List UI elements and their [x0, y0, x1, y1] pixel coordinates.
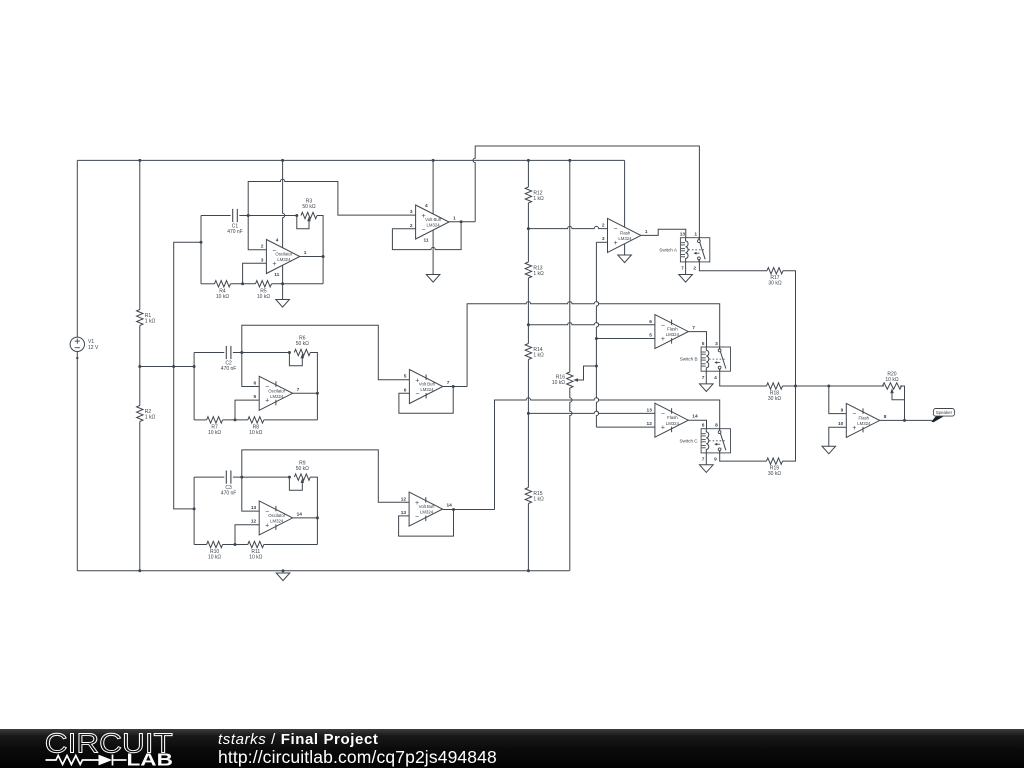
node flash4 output/feedback — [903, 419, 906, 422]
svg-text:3: 3 — [715, 341, 718, 347]
wire R10 to R11 — [223, 544, 248, 546]
svg-text:Switch B: Switch B — [680, 357, 698, 362]
svg-text:13: 13 — [251, 505, 257, 511]
svg-text:12: 12 — [401, 496, 407, 502]
resistor R8 — [248, 417, 264, 423]
svg-text:12: 12 — [251, 519, 257, 525]
capacitor C1 — [232, 209, 234, 222]
svg-text:7: 7 — [692, 325, 695, 331]
svg-text:Oscilator: Oscilator — [275, 252, 293, 257]
ground on bottom rail — [282, 571, 284, 573]
svg-text:10 kΩ: 10 kΩ — [885, 377, 898, 383]
svg-text:Speaker: Speaker — [936, 410, 953, 415]
svg-text:12 V: 12 V — [88, 345, 99, 351]
svg-text:5: 5 — [649, 332, 652, 338]
svg-text:5: 5 — [404, 374, 407, 380]
node osc3 inverting net — [240, 476, 243, 479]
resistor R6 (pot body) — [294, 349, 310, 355]
wire flash2 pin6 line — [528, 323, 655, 325]
node 12V/osc1 power — [281, 159, 284, 162]
resistor R16 (pot body) — [567, 372, 573, 388]
wire flash1 out to switch A coil — [641, 229, 686, 237]
svg-text:10 kΩ: 10 kΩ — [216, 294, 229, 300]
resistor R14 — [525, 344, 531, 360]
node osc1 + feedback — [241, 282, 244, 285]
resistor R10 — [207, 541, 223, 547]
potentiometer R20 wiper — [890, 388, 894, 393]
node gnd symbol tap — [282, 569, 285, 572]
svg-text:3: 3 — [602, 236, 605, 242]
svg-text:470 nF: 470 nF — [221, 366, 237, 372]
node osc2 + feedback — [234, 418, 237, 421]
svg-text:Flash: Flash — [667, 327, 678, 332]
node osc1 inverting net — [247, 214, 250, 217]
node osc2 output — [316, 392, 319, 395]
svg-text:Volt Buff: Volt Buff — [425, 217, 442, 222]
svg-text:50 kΩ: 50 kΩ — [296, 466, 309, 472]
svg-text:2: 2 — [693, 266, 696, 272]
wire osc1 pin2 drop — [248, 216, 266, 250]
node R6 left terminal — [288, 351, 291, 354]
svg-text:10 kΩ: 10 kΩ — [208, 555, 221, 561]
svg-text:LM324: LM324 — [666, 332, 680, 337]
wire divider drop to osc3 — [174, 367, 194, 509]
wire 12V top rail — [77, 159, 624, 161]
resistor R3 (pot body) — [301, 212, 317, 218]
wire VB1 output — [449, 221, 475, 223]
wire osc3 pin13 drop — [242, 477, 259, 511]
op-amp U2D Flash LM324 — [655, 315, 688, 349]
potentiometer R9 wiper — [289, 477, 302, 490]
svg-text:+: + — [661, 336, 665, 343]
node 12V/VB1 power — [432, 159, 435, 162]
node divider branch — [172, 365, 175, 368]
wire rail B bottom — [570, 388, 572, 571]
svg-text:14: 14 — [297, 511, 303, 517]
svg-text:Flash: Flash — [667, 415, 678, 420]
svg-text:1 kΩ: 1 kΩ — [145, 415, 156, 421]
voltage source V1 — [70, 337, 84, 351]
svg-text:30 kΩ: 30 kΩ — [768, 396, 781, 402]
svg-text:3: 3 — [261, 257, 264, 263]
wire osc3 left rail — [193, 477, 195, 544]
node rail C / flash2 + — [595, 337, 598, 340]
ground below VB1 — [426, 275, 440, 283]
svg-text:LM324: LM324 — [857, 421, 871, 426]
svg-text:2: 2 — [602, 223, 605, 229]
svg-text:1 kΩ: 1 kΩ — [533, 196, 544, 202]
wire osc1 node riser to VB1 — [248, 179, 415, 215]
resistor R5 — [256, 281, 272, 287]
svg-text:Flash: Flash — [859, 415, 870, 420]
wire VB2 feedback — [399, 387, 453, 414]
node osc3 + feedback — [234, 543, 237, 546]
svg-text:1: 1 — [453, 216, 456, 222]
svg-text:10 kΩ: 10 kΩ — [552, 380, 565, 386]
svg-text:LM324: LM324 — [666, 421, 680, 426]
wire osc2 pin5 riser — [235, 400, 259, 420]
svg-text:LM324: LM324 — [270, 394, 284, 399]
svg-text:4: 4 — [276, 238, 279, 244]
wire R6 to osc2 right rail — [310, 353, 317, 420]
resistor R17 — [767, 268, 783, 274]
svg-text:LM324: LM324 — [420, 387, 434, 392]
op-amp U1C Oscilator LM324 — [259, 376, 292, 410]
wire rail C — [596, 242, 598, 427]
wire R20 top run — [829, 385, 884, 387]
wire flash4 plus to ground — [829, 427, 847, 446]
op-amp U2A Oscilator LM324 — [259, 501, 292, 535]
svg-text:1 kΩ: 1 kΩ — [533, 271, 544, 277]
svg-text:13: 13 — [647, 407, 653, 413]
wire osc1 output to right rail — [300, 256, 323, 258]
svg-text:6: 6 — [404, 387, 407, 393]
node R9 left terminal — [288, 476, 291, 479]
svg-text:4: 4 — [714, 375, 717, 381]
node 12V/R1 — [138, 159, 141, 162]
svg-text:30 kΩ: 30 kΩ — [768, 471, 781, 477]
svg-text:10 kΩ: 10 kΩ — [208, 430, 221, 436]
svg-text:11: 11 — [423, 238, 428, 244]
op-amp U2B Volt Buff LM324 — [409, 492, 442, 526]
node gnd/R2 — [138, 569, 141, 572]
svg-text:5: 5 — [702, 341, 705, 347]
capacitor C3 — [225, 471, 227, 484]
svg-text:470 nF: 470 nF — [221, 491, 237, 497]
svg-text:6: 6 — [702, 423, 705, 429]
svg-text:LM324: LM324 — [427, 223, 441, 228]
svg-text:12: 12 — [647, 421, 653, 427]
svg-text:2: 2 — [410, 223, 413, 229]
node osc2 inverting net — [240, 351, 243, 354]
node osc1 output — [322, 255, 325, 258]
svg-text:7: 7 — [297, 387, 300, 393]
node mixer input — [827, 385, 830, 388]
node rail A / flash1 threshold — [527, 227, 530, 230]
wire osc2 left rail — [193, 353, 195, 420]
node 12V/rail A — [527, 159, 530, 162]
resistor R7 — [207, 417, 223, 423]
svg-text:470 nF: 470 nF — [227, 229, 243, 235]
wire divider node to R2 — [139, 367, 141, 406]
CircuitLab logo — [0, 729, 200, 768]
svg-text:10 kΩ: 10 kΩ — [257, 294, 270, 300]
wire osc1 pin3 riser — [243, 263, 267, 284]
wire osc2 node riser + bus to VB2 — [242, 325, 410, 379]
potentiometer R6 wiper — [289, 353, 302, 366]
ground below switch B coil — [705, 371, 707, 384]
wire VB2 output — [443, 386, 467, 388]
svg-text:−: − — [613, 226, 617, 233]
wire R8 to right rail — [264, 419, 318, 421]
node mix rail / R18 — [794, 385, 797, 388]
wire R5 to right rail — [272, 283, 324, 285]
wire rail A seg4 — [527, 360, 529, 488]
op-amp U3A Flash LM324 — [655, 403, 688, 437]
wire C2 to node — [233, 352, 290, 354]
svg-text:4: 4 — [425, 203, 428, 209]
svg-text:5: 5 — [254, 394, 257, 400]
op-amp U1D Volt Buff LM324 — [409, 370, 442, 404]
wire osc2 output to right rail — [293, 392, 318, 394]
svg-text:8: 8 — [715, 423, 718, 429]
node osc3 output — [316, 516, 319, 519]
svg-text:13: 13 — [401, 510, 407, 516]
svg-text:+: + — [265, 398, 269, 405]
op-amp U3B Flash LM324 — [846, 403, 879, 437]
wire R19 to mix rail — [783, 386, 796, 461]
wire 12V to R1 — [139, 160, 141, 309]
wire R3 to osc1 right rail — [317, 216, 323, 284]
wire rail A seg5 — [527, 504, 529, 571]
wire R1 to divider node — [139, 326, 141, 367]
wire osc3 node riser + bus to VB3 — [242, 450, 409, 502]
wire flash2 out to switch B coil — [688, 332, 706, 347]
wire osc1 bottom row left — [201, 283, 215, 285]
svg-text:6: 6 — [254, 381, 257, 387]
resistor R2 — [137, 406, 143, 422]
wire flash2 pin5 line — [596, 338, 655, 340]
svg-text:−: − — [661, 411, 665, 418]
resistor R18 — [767, 383, 783, 389]
ground below switch C coil — [705, 453, 707, 465]
resistor R12 — [525, 187, 531, 203]
wire flash1 pin3 line — [596, 241, 607, 243]
svg-text:10 kΩ: 10 kΩ — [249, 555, 262, 561]
resistor R13 — [525, 262, 531, 278]
resistor R19 — [767, 458, 783, 464]
wire R7 to R8 — [223, 419, 248, 421]
wire switch C out — [720, 451, 767, 462]
svg-text:7: 7 — [702, 457, 705, 463]
speaker flag — [931, 416, 944, 422]
ground below flash1 — [618, 255, 632, 263]
svg-text:+: + — [661, 425, 665, 432]
node rail A / flash2 threshold — [527, 323, 530, 326]
wire osc2 bottom row left — [194, 419, 207, 421]
wire flash4 output — [880, 419, 932, 421]
node rail C / R16 wiper — [595, 365, 598, 368]
svg-text:7: 7 — [447, 380, 450, 386]
wire below V1 to ground rail — [76, 352, 78, 571]
node divider mid — [138, 365, 141, 368]
node R3 left terminal — [295, 214, 298, 217]
svg-text:3: 3 — [410, 209, 413, 215]
wire osc3 pin12 riser — [235, 525, 259, 545]
wire osc1 power pin4 — [283, 160, 285, 247]
resistor R11 — [248, 541, 264, 547]
svg-text:LAB: LAB — [127, 750, 173, 768]
node V1 negative terminal — [76, 357, 78, 359]
op-amp U1A Oscilator LM324 — [266, 240, 299, 274]
node VB1 output/feedback — [460, 220, 463, 223]
wire mix to flash4 minus — [829, 386, 847, 414]
wire divider to osc2 rail — [140, 366, 194, 368]
capacitor C2 — [225, 346, 227, 359]
svg-text:LM324: LM324 — [420, 510, 434, 515]
node rail A / flash3 threshold — [527, 412, 530, 415]
svg-text:−: − — [422, 226, 426, 233]
wire VB2 output riser + bus to switch B — [467, 302, 720, 387]
svg-text:1 kΩ: 1 kΩ — [533, 353, 544, 359]
wire rail A seg2 — [527, 203, 529, 262]
svg-text:13: 13 — [680, 232, 686, 238]
wire osc3 bottom row left — [194, 544, 207, 546]
svg-text:1 kΩ: 1 kΩ — [145, 319, 156, 325]
wire osc1 top (C1/R3 row) — [201, 215, 231, 217]
svg-text:LM324: LM324 — [277, 257, 291, 262]
wire switch A out — [699, 260, 767, 271]
op-amp U1B Volt Buff LM324 — [416, 205, 449, 239]
svg-text:10 kΩ: 10 kΩ — [249, 430, 262, 436]
wire R11 to right rail — [264, 544, 318, 546]
svg-text:14: 14 — [692, 414, 698, 420]
wire left supply rail — [76, 160, 78, 337]
node gnd/rail A — [527, 569, 530, 572]
ground below flash4 — [822, 446, 836, 454]
svg-text:9: 9 — [841, 408, 844, 414]
svg-text:−: − — [415, 391, 419, 398]
svg-text:Volt Buff: Volt Buff — [419, 382, 436, 387]
svg-text:1: 1 — [304, 250, 307, 256]
node VB3 output/feedback — [452, 508, 455, 511]
wire osc3 top row — [194, 476, 224, 478]
svg-text:7: 7 — [702, 375, 705, 381]
wire osc1 left rail — [200, 216, 202, 284]
resistor R1 — [137, 310, 143, 326]
logo resistor-diode art — [46, 755, 127, 766]
wire flash1 pin11 gnd — [624, 244, 626, 255]
resistor R9 (pot body) — [294, 474, 310, 480]
node osc3 left rail feed — [193, 507, 196, 510]
svg-text:LM324: LM324 — [270, 519, 284, 524]
svg-text:−: − — [415, 514, 419, 521]
svg-text:2: 2 — [261, 244, 264, 250]
svg-text:50 kΩ: 50 kΩ — [302, 204, 315, 210]
node 12V/rail B — [568, 159, 571, 162]
wire R9 to osc3 right rail — [310, 477, 317, 544]
switch C (relay) — [701, 429, 730, 453]
wire osc3 output to right rail — [293, 517, 318, 519]
svg-text:+: + — [613, 240, 617, 247]
potentiometer R3 wiper — [297, 216, 309, 229]
wire osc1 pin11 to ground — [282, 265, 284, 299]
wire C3 to node — [233, 476, 290, 478]
svg-text:6: 6 — [649, 319, 652, 325]
wire osc2 top row — [194, 352, 224, 354]
svg-text:Oscilator: Oscilator — [268, 388, 286, 393]
wire VB1 power pin4 — [432, 160, 434, 213]
wire flash3 pin13 line — [528, 411, 655, 413]
resistor R20 (pot body) — [883, 383, 902, 389]
switch B (relay) — [701, 347, 730, 371]
wire C1 to node — [239, 215, 296, 217]
wire flash3 out to switch C coil — [688, 420, 706, 429]
svg-text:14: 14 — [447, 503, 453, 509]
node VB2 output/feedback — [452, 385, 455, 388]
resistor R4 — [215, 281, 231, 287]
svg-text:Switch C: Switch C — [679, 438, 698, 443]
node pin11 crosses bottom row — [281, 282, 284, 285]
op-amp U2C Flash LM324 — [608, 218, 641, 252]
wire divider riser to osc1 — [174, 242, 201, 366]
switch A (relay) — [680, 238, 709, 262]
svg-text:Flash: Flash — [620, 230, 631, 235]
resistor R15 — [525, 488, 531, 504]
wire VB3 feedback — [399, 510, 454, 537]
wire R17 to mix rail — [783, 271, 796, 386]
svg-text:+: + — [272, 261, 276, 268]
svg-text:Volt Buff: Volt Buff — [419, 504, 436, 509]
wire R20 to output — [900, 386, 905, 420]
svg-text:LM324: LM324 — [618, 236, 632, 241]
wire VB3 output — [443, 509, 495, 511]
wire VB1 feedback — [392, 222, 461, 250]
svg-text:1: 1 — [645, 229, 648, 235]
wire rail A seg1 — [527, 160, 529, 187]
node osc1 left rail / divider feed — [200, 241, 203, 244]
svg-text:+: + — [265, 522, 269, 529]
wire flash3 pin12 line — [596, 426, 655, 428]
svg-text:50 kΩ: 50 kΩ — [296, 341, 309, 347]
wire VB1 output riser + bus to switch A — [473, 146, 699, 240]
wire switch B out — [720, 369, 767, 386]
wire rail A seg3 — [527, 278, 529, 344]
wire flash1 pin2 line — [528, 226, 607, 228]
wire R4 to R5 — [231, 283, 256, 285]
wire R2 to ground rail — [139, 422, 141, 571]
wire R18 to mix node — [783, 385, 829, 387]
svg-text:Oscilator: Oscilator — [268, 513, 286, 518]
svg-text:7: 7 — [681, 266, 684, 272]
wire osc2 pin6 drop — [242, 353, 259, 387]
svg-text:1 kΩ: 1 kΩ — [533, 497, 544, 503]
svg-text:−: − — [852, 411, 856, 418]
ground below osc1 — [276, 300, 290, 308]
potentiometer R16 wiper — [573, 378, 578, 381]
svg-text:10: 10 — [838, 421, 844, 427]
svg-text:30 kΩ: 30 kΩ — [768, 281, 781, 287]
svg-text:11: 11 — [274, 272, 279, 278]
svg-text:1: 1 — [694, 232, 697, 238]
wire bottom ground rail — [77, 570, 569, 572]
svg-text:−: − — [661, 322, 665, 329]
svg-text:9: 9 — [714, 457, 717, 463]
node osc2 left rail feed — [193, 365, 196, 368]
svg-text:Switch A: Switch A — [659, 247, 678, 252]
svg-text:8: 8 — [884, 414, 887, 420]
wire flash1 power — [624, 160, 626, 227]
ground below switch A coil — [685, 262, 687, 275]
wire VB3 output riser + bus to switch C — [495, 398, 720, 510]
wire VB1 pin11 to ground — [432, 231, 434, 275]
svg-text:+: + — [852, 425, 856, 432]
wire rail B top — [569, 160, 571, 372]
